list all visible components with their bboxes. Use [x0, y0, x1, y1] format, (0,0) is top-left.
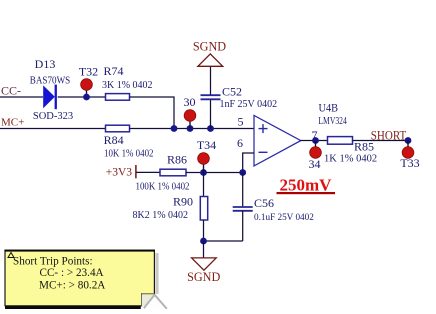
op-amp U4B	[254, 115, 301, 165]
test point T34	[198, 153, 210, 173]
svg-text:R90: R90	[173, 195, 193, 209]
junction	[171, 125, 178, 132]
wire	[242, 173, 244, 207]
svg-text:R86: R86	[167, 152, 187, 166]
svg-text:10K 1% 0402: 10K 1% 0402	[104, 149, 154, 160]
wire	[203, 220, 205, 241]
svg-text:R74: R74	[103, 64, 123, 78]
wire	[203, 173, 205, 197]
svg-text:SOD-323: SOD-323	[33, 111, 73, 122]
svg-text:T33: T33	[400, 156, 419, 170]
note bottom shadow bar	[5, 306, 141, 309]
svg-text:5: 5	[238, 115, 244, 129]
svg-text:CC- : > 23.4A: CC- : > 23.4A	[40, 267, 104, 279]
svg-text:R84: R84	[104, 133, 124, 147]
svg-text:CC-: CC-	[1, 84, 21, 98]
svg-text:3K 1% 0402: 3K 1% 0402	[102, 80, 153, 91]
svg-text:+3V3: +3V3	[106, 167, 133, 179]
junction	[239, 169, 246, 176]
resistor R84	[106, 125, 130, 132]
resistor R74	[106, 94, 130, 101]
wire	[243, 153, 254, 173]
note top border	[5, 250, 155, 252]
svg-text:SGND: SGND	[187, 270, 220, 284]
diode D13	[43, 85, 57, 110]
svg-text:100K 1% 0402: 100K 1% 0402	[136, 182, 190, 193]
note fold corner	[142, 294, 167, 309]
svg-text:Short Trip Points:: Short Trip Points:	[13, 256, 93, 268]
svg-text:SGND: SGND	[193, 40, 226, 54]
svg-text:T34: T34	[197, 138, 216, 152]
junction	[207, 125, 214, 132]
resistor R85	[328, 137, 353, 145]
test point T32	[81, 79, 93, 101]
ground SGND bottom	[192, 258, 217, 270]
svg-text:30: 30	[184, 95, 196, 109]
svg-text:34: 34	[309, 157, 321, 171]
svg-text:C56: C56	[254, 196, 274, 210]
resistor R90	[200, 197, 207, 221]
junction node 30	[187, 125, 194, 132]
note body	[5, 250, 154, 306]
wire	[210, 67, 212, 95]
svg-text:6: 6	[237, 136, 243, 150]
wire	[0, 128, 106, 130]
wire	[210, 100, 212, 129]
wire	[58, 96, 106, 98]
wire	[301, 140, 328, 142]
svg-text:MC+: MC+	[1, 117, 24, 129]
wire	[242, 211, 244, 241]
wire	[204, 240, 243, 242]
wire	[136, 171, 160, 173]
wire	[0, 96, 43, 98]
svg-text:D13: D13	[35, 57, 56, 71]
svg-text:C52: C52	[222, 85, 242, 99]
ground SGND top	[198, 54, 223, 66]
svg-text:250mV: 250mV	[280, 176, 333, 195]
svg-text:SHORT: SHORT	[371, 127, 407, 142]
svg-text:U4B: U4B	[319, 101, 339, 115]
junction	[405, 137, 412, 144]
wire	[186, 172, 243, 174]
junction	[200, 169, 207, 176]
svg-text:1nF 25V 0402: 1nF 25V 0402	[220, 99, 278, 110]
wire	[130, 128, 255, 130]
svg-text:LMV324: LMV324	[318, 116, 347, 127]
svg-text:BAS70WS: BAS70WS	[30, 76, 71, 87]
test point 30	[184, 110, 196, 129]
svg-text:T32: T32	[79, 65, 98, 79]
test point T33	[402, 141, 414, 159]
svg-text:7: 7	[312, 128, 318, 142]
svg-text:8K2 1% 0402: 8K2 1% 0402	[133, 210, 189, 221]
junction	[200, 238, 207, 245]
annotation 250mV	[277, 176, 336, 195]
resistor R86	[160, 169, 186, 176]
wire	[130, 97, 175, 129]
capacitor C56	[233, 207, 253, 211]
svg-text:1K 1% 0402: 1K 1% 0402	[324, 153, 377, 164]
junction node 7	[312, 137, 319, 144]
note shadow right	[155, 253, 158, 294]
power port +3V3	[106, 165, 136, 179]
wire	[353, 140, 411, 142]
test point 34	[310, 141, 322, 159]
svg-text:0.1uF 25V 0402: 0.1uF 25V 0402	[254, 212, 314, 222]
capacitor C52	[201, 95, 221, 99]
wire	[203, 241, 205, 258]
svg-text:MC+: > 80.2A: MC+: > 80.2A	[39, 280, 105, 292]
note marker triangle	[8, 253, 14, 258]
